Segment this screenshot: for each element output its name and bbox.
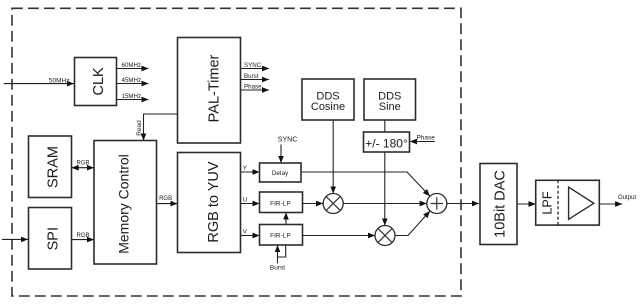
svg-text:Burst: Burst	[244, 73, 259, 80]
svg-text:15MHz: 15MHz	[122, 93, 142, 100]
svg-text:SPI: SPI	[46, 227, 62, 250]
svg-text:Phase: Phase	[416, 135, 435, 142]
svg-text:Y: Y	[243, 165, 247, 172]
svg-text:Phase: Phase	[244, 83, 262, 90]
svg-text:Cosine: Cosine	[311, 101, 345, 113]
svg-text:V: V	[243, 229, 248, 236]
svg-text:RGB: RGB	[76, 161, 89, 167]
svg-text:+/- 180°: +/- 180°	[365, 137, 408, 151]
svg-text:Output: Output	[618, 195, 636, 201]
svg-text:Memory Control: Memory Control	[116, 154, 132, 254]
svg-text:SYNC: SYNC	[278, 136, 297, 143]
svg-text:Burst: Burst	[270, 265, 285, 272]
svg-text:Sine: Sine	[379, 101, 401, 113]
svg-text:50MHz: 50MHz	[49, 78, 70, 85]
svg-text:RGB: RGB	[76, 233, 89, 239]
svg-text:FIR-LP: FIR-LP	[270, 233, 291, 240]
svg-text:SRAM: SRAM	[46, 146, 62, 188]
svg-text:45MHz: 45MHz	[122, 77, 142, 84]
svg-text:FIR-LP: FIR-LP	[270, 200, 291, 207]
svg-text:SYNC: SYNC	[244, 62, 262, 69]
svg-text:60MHz: 60MHz	[122, 62, 142, 69]
svg-text:CLK: CLK	[91, 67, 107, 96]
svg-text:RGB to YUV: RGB to YUV	[206, 161, 222, 242]
svg-text:PAL-Timer: PAL-Timer	[207, 54, 223, 122]
svg-text:U: U	[243, 197, 247, 204]
svg-text:Delay: Delay	[272, 170, 289, 177]
svg-text:10Bit DAC: 10Bit DAC	[493, 170, 509, 238]
svg-text:LPF: LPF	[540, 191, 554, 215]
svg-text:Read: Read	[136, 120, 143, 136]
svg-text:RGB: RGB	[159, 196, 172, 202]
